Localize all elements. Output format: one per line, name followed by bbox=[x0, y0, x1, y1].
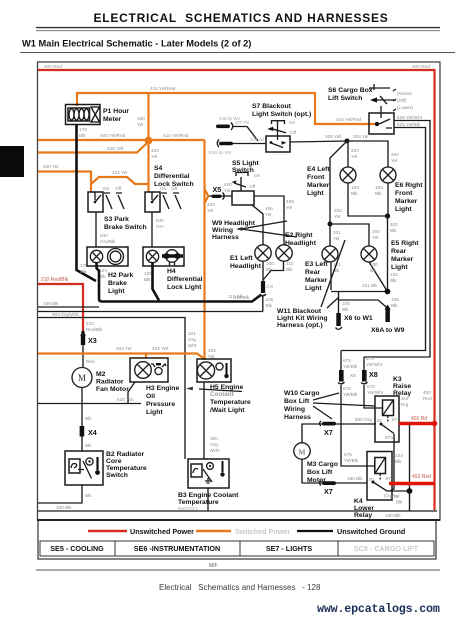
svg-text:X7: X7 bbox=[324, 487, 333, 496]
svg-text:110 Blk: 110 Blk bbox=[234, 295, 250, 300]
wire 102 Blk bbox=[388, 216, 399, 290]
ground bus H2/H4/E1 thick bbox=[97, 263, 262, 302]
footer rules bbox=[36, 563, 440, 570]
right front marker light E6 bbox=[380, 167, 423, 213]
svg-text:W9 Headlight: W9 Headlight bbox=[212, 220, 256, 227]
svg-text:800 Org: 800 Org bbox=[355, 417, 372, 422]
svg-text:Light: Light bbox=[391, 264, 408, 271]
svg-text:E2 Right: E2 Right bbox=[285, 232, 313, 239]
svg-text:Yel/Blk: Yel/Blk bbox=[344, 458, 359, 463]
svg-text:675: 675 bbox=[343, 386, 351, 391]
svg-text:Brake Switch: Brake Switch bbox=[104, 224, 147, 231]
svg-text:206 Yel: 206 Yel bbox=[250, 137, 264, 142]
svg-text:Yel/Wht: Yel/Wht bbox=[366, 362, 383, 367]
left rear marker light E3 bbox=[305, 246, 338, 292]
wire 401 Red thick bbox=[399, 416, 437, 426]
svg-text:Lock Switch: Lock Switch bbox=[154, 181, 194, 188]
svg-text:Rear: Rear bbox=[391, 248, 406, 255]
svg-text:Wht: Wht bbox=[188, 343, 197, 348]
schematic frame bbox=[38, 62, 441, 520]
svg-text:SE5 - COOLING: SE5 - COOLING bbox=[50, 544, 104, 553]
wire 420 Yel S4 riser bbox=[149, 140, 160, 192]
H3 ground wire 620 Tan bbox=[38, 382, 141, 404]
svg-text:480: 480 bbox=[137, 116, 145, 121]
lower relay K4 bbox=[354, 452, 403, 520]
svg-text:E5 Right: E5 Right bbox=[391, 240, 419, 247]
svg-text:Yol: Yol bbox=[224, 188, 230, 193]
svg-text:Harness: Harness bbox=[284, 414, 311, 421]
wire 203 Yel to E4 bbox=[348, 141, 359, 167]
svg-text:402: 402 bbox=[208, 348, 216, 353]
differential lock switch S4 bbox=[145, 165, 194, 212]
svg-text:87: 87 bbox=[392, 417, 398, 422]
svg-text:5W6700.0: 5W6700.0 bbox=[178, 506, 198, 511]
svg-text:www.epcatalogs.com: www.epcatalogs.com bbox=[317, 602, 440, 616]
svg-text:675: 675 bbox=[343, 358, 351, 363]
svg-text:151 Blk: 151 Blk bbox=[362, 283, 378, 288]
svg-text:452 Red: 452 Red bbox=[412, 474, 431, 480]
svg-text:E6 Right: E6 Right bbox=[395, 182, 423, 189]
svg-text:400: 400 bbox=[224, 182, 232, 187]
wire 670 Yel/Wht to K3 coil bbox=[364, 385, 383, 408]
wire 425 Yel bus bbox=[38, 142, 149, 153]
svg-text:105: 105 bbox=[391, 297, 399, 302]
wire 640 Grn bbox=[152, 212, 164, 247]
cargo box lift motor M3 bbox=[294, 443, 338, 484]
radiator core temperature switch B2 bbox=[65, 451, 147, 485]
marker ground rail bbox=[331, 291, 388, 293]
svg-text:Temperature: Temperature bbox=[210, 399, 251, 406]
svg-text:670: 670 bbox=[366, 356, 374, 361]
svg-text:Blk: Blk bbox=[396, 500, 403, 505]
svg-text:674 Yel: 674 Yel bbox=[384, 494, 399, 499]
svg-text:K4: K4 bbox=[354, 498, 363, 505]
differential lock light H4 bbox=[143, 247, 203, 291]
svg-text:X4: X4 bbox=[88, 428, 97, 437]
svg-text:904 Org/Wht: 904 Org/Wht bbox=[52, 312, 79, 317]
svg-text:Blk: Blk bbox=[390, 278, 397, 283]
svg-text:S4: S4 bbox=[154, 165, 163, 172]
svg-text:Temperature: Temperature bbox=[178, 499, 219, 506]
svg-text:Blk: Blk bbox=[391, 303, 398, 308]
B2 ground wire bbox=[38, 485, 92, 503]
page title bbox=[36, 11, 440, 31]
svg-text:221: 221 bbox=[188, 331, 196, 336]
svg-text:425 Yell: 425 Yell bbox=[107, 146, 123, 151]
svg-text:400 Red: 400 Red bbox=[44, 64, 62, 69]
svg-text:Blk: Blk bbox=[80, 269, 87, 274]
svg-text:Rear: Rear bbox=[305, 269, 320, 276]
wire 103 Blk E4 ground bbox=[348, 183, 385, 216]
legend box bbox=[38, 520, 436, 559]
connector X3 bbox=[80, 331, 97, 367]
headlight E2 bbox=[276, 232, 317, 261]
svg-text:Blk: Blk bbox=[85, 416, 92, 421]
svg-text:87: 87 bbox=[386, 476, 392, 481]
svg-text:M2: M2 bbox=[96, 371, 106, 378]
svg-text:E4 Left: E4 Left bbox=[307, 166, 330, 173]
E2 ground diagonal bbox=[234, 261, 294, 300]
svg-text:Fan Motor: Fan Motor bbox=[96, 386, 129, 393]
svg-text:On: On bbox=[289, 120, 296, 125]
svg-text:415 Yel/Red: 415 Yel/Red bbox=[150, 86, 176, 91]
svg-text:Coolant: Coolant bbox=[210, 391, 235, 398]
svg-text:204 Yel: 204 Yel bbox=[353, 134, 368, 139]
W9 stub connector 207 Yel bbox=[216, 116, 258, 141]
svg-text:640: 640 bbox=[156, 218, 164, 223]
svg-text:On: On bbox=[103, 186, 110, 191]
wire 101 Blk E3 ground bbox=[331, 262, 341, 290]
svg-text:Differential: Differential bbox=[154, 173, 190, 180]
svg-text:Yel: Yel bbox=[137, 122, 143, 127]
svg-text:420: 420 bbox=[151, 148, 159, 153]
wire 410 Yel/Red with junction node bbox=[145, 93, 205, 144]
svg-text:Yel: Yel bbox=[207, 208, 213, 213]
svg-text:100: 100 bbox=[266, 261, 274, 266]
svg-text:103: 103 bbox=[351, 185, 359, 190]
svg-text:210: 210 bbox=[86, 321, 94, 326]
wire 480 Blk with connector X7 bbox=[302, 459, 367, 496]
connector X8 pair bbox=[338, 351, 384, 398]
svg-text:P1 Hour: P1 Hour bbox=[103, 108, 129, 115]
svg-text:620 Tan: 620 Tan bbox=[117, 397, 134, 402]
svg-text:Temperature: Temperature bbox=[106, 465, 147, 472]
wire 800 Org with connector X7 bbox=[302, 417, 376, 443]
svg-text:170: 170 bbox=[79, 127, 87, 132]
svg-text:Off: Off bbox=[115, 186, 122, 191]
wire 201 Yel to E3 bbox=[330, 224, 341, 246]
svg-text:Headlight: Headlight bbox=[285, 240, 317, 247]
wire 150 Blk E5 ground bbox=[369, 262, 387, 290]
connector X6A to W9 bbox=[371, 297, 405, 334]
wire 100 Blk bus bbox=[38, 505, 437, 518]
svg-text:Off: Off bbox=[290, 130, 297, 135]
svg-text:403 Yell: 403 Yell bbox=[152, 346, 168, 351]
wire 455 Yel to E2 bbox=[254, 196, 294, 245]
svg-text:400: 400 bbox=[423, 390, 431, 395]
wire 404 Yel bbox=[38, 346, 205, 359]
svg-text:Yel: Yel bbox=[265, 212, 271, 217]
wire 400 Yel/Red bus bbox=[38, 133, 149, 140]
svg-text:Radiator: Radiator bbox=[96, 379, 124, 386]
svg-text:430 Yel: 430 Yel bbox=[43, 164, 58, 169]
cargo box lift switch S6 bbox=[328, 84, 413, 134]
svg-text:(Lower): (Lower) bbox=[397, 105, 413, 110]
svg-text:(Off): (Off) bbox=[397, 98, 407, 103]
svg-text:Gry/Blk: Gry/Blk bbox=[100, 239, 116, 244]
svg-text:203: 203 bbox=[351, 148, 359, 153]
svg-text:Off: Off bbox=[249, 184, 256, 189]
svg-text:Unswitched Power: Unswitched Power bbox=[130, 527, 194, 536]
svg-text:Marker: Marker bbox=[391, 256, 414, 263]
svg-text:X3: X3 bbox=[88, 336, 97, 345]
section table bbox=[40, 541, 434, 556]
svg-text:X5: X5 bbox=[213, 185, 222, 194]
svg-text:Blk: Blk bbox=[79, 133, 86, 138]
svg-text:K3: K3 bbox=[393, 376, 402, 383]
svg-text:Light: Light bbox=[307, 190, 324, 197]
wire 415 Yel/Red bbox=[77, 86, 375, 127]
svg-text:404 Yel: 404 Yel bbox=[116, 346, 131, 351]
svg-text:Relay: Relay bbox=[354, 512, 372, 519]
svg-text:400 Red: 400 Red bbox=[412, 64, 430, 69]
svg-text:Red: Red bbox=[86, 359, 95, 364]
svg-text:X6 to W1: X6 to W1 bbox=[344, 315, 373, 322]
headlight E1 bbox=[230, 245, 271, 270]
svg-text:Yel: Yel bbox=[372, 235, 378, 240]
svg-text:Light: Light bbox=[146, 409, 163, 416]
svg-text:Yel: Yel bbox=[151, 154, 157, 159]
svg-text:Harness: Harness bbox=[212, 234, 239, 241]
svg-text:Blk: Blk bbox=[85, 443, 92, 448]
svg-text:2065 bp W9: 2065 bp W9 bbox=[208, 150, 232, 155]
wire 452 Red thick bbox=[389, 474, 435, 484]
svg-text:X7: X7 bbox=[324, 428, 333, 437]
W9 stub connector 206 Yel bbox=[208, 137, 266, 155]
svg-text:On: On bbox=[254, 173, 261, 178]
wire 108 Blk bus bbox=[38, 301, 263, 312]
svg-text:Wiring: Wiring bbox=[212, 227, 233, 234]
svg-text:Marker: Marker bbox=[395, 198, 418, 205]
svg-text:410 Yel/Red: 410 Yel/Red bbox=[163, 133, 189, 138]
svg-text:205 bp W9: 205 bp W9 bbox=[219, 116, 240, 121]
svg-text:Yel: Yel bbox=[391, 158, 397, 163]
svg-text:Oil: Oil bbox=[146, 393, 155, 400]
svg-text:E1 Left: E1 Left bbox=[230, 255, 253, 262]
svg-text:Blk: Blk bbox=[266, 303, 273, 308]
svg-text:Light: Light bbox=[395, 206, 412, 213]
svg-text:S6 Cargo Box: S6 Cargo Box bbox=[328, 87, 373, 94]
svg-text:H2 Park: H2 Park bbox=[108, 272, 134, 279]
svg-text:Blk: Blk bbox=[351, 191, 358, 196]
svg-text:SE6 -INSTRUMENTATION: SE6 -INSTRUMENTATION bbox=[134, 544, 220, 553]
svg-text:205 Yell: 205 Yell bbox=[325, 134, 341, 139]
page edge tab bbox=[0, 146, 24, 177]
svg-text:M: M bbox=[299, 448, 306, 457]
svg-text:480 Blk: 480 Blk bbox=[347, 476, 363, 481]
legend unswitched power bbox=[88, 527, 194, 536]
left front marker light E4 bbox=[307, 166, 356, 197]
wire 675 Yel/Blk to K4 coil bbox=[341, 385, 375, 466]
svg-text:110: 110 bbox=[286, 261, 294, 266]
wire 210 Red/Blk bbox=[38, 277, 103, 333]
svg-text:Raise: Raise bbox=[393, 383, 411, 390]
svg-text:Light: Light bbox=[305, 285, 322, 292]
legend unswitched ground bbox=[297, 527, 405, 536]
svg-text:102: 102 bbox=[390, 222, 398, 227]
svg-text:Blk: Blk bbox=[390, 228, 397, 233]
svg-text:Meter: Meter bbox=[103, 116, 121, 123]
svg-text:Lock Light: Lock Light bbox=[167, 284, 202, 291]
svg-text:M: M bbox=[78, 373, 86, 383]
svg-text:H3 Engine: H3 Engine bbox=[146, 385, 179, 392]
svg-text:Pressure: Pressure bbox=[146, 401, 175, 408]
svg-text:W11 Blackout: W11 Blackout bbox=[277, 308, 322, 315]
connector X5 bbox=[205, 182, 233, 213]
svg-text:300: 300 bbox=[210, 436, 218, 441]
wire 205/204 Yel to marker node bbox=[290, 134, 368, 144]
svg-text:H4: H4 bbox=[167, 268, 176, 275]
connector X6 to W1 bbox=[336, 292, 389, 329]
svg-text:Brake: Brake bbox=[108, 280, 127, 287]
svg-text:ELECTRICAL SCHEMATICS AND HAR: ELECTRICAL SCHEMATICS AND HARNESSES bbox=[93, 11, 388, 25]
svg-text:Lower: Lower bbox=[354, 505, 374, 512]
svg-text:Light Kit Wiring: Light Kit Wiring bbox=[277, 315, 328, 322]
wire 170 Blk thick bbox=[77, 124, 97, 281]
svg-text:X8: X8 bbox=[369, 370, 378, 379]
svg-text:87a: 87a bbox=[385, 435, 393, 440]
wire 430 Yel bbox=[38, 164, 91, 192]
svg-text:Headlight: Headlight bbox=[230, 263, 262, 270]
svg-text:Unswitched Ground: Unswitched Ground bbox=[337, 527, 405, 536]
svg-text:B2 Radiator: B2 Radiator bbox=[106, 451, 145, 458]
temperature wait light H5 bbox=[197, 359, 251, 414]
svg-text:620 Yel/Wht: 620 Yel/Wht bbox=[397, 115, 423, 120]
svg-text:Yel: Yel bbox=[333, 236, 339, 241]
svg-text:M3 Cargo: M3 Cargo bbox=[307, 461, 338, 468]
svg-text:675: 675 bbox=[344, 452, 352, 457]
wire 630 Gry/Blk bbox=[96, 212, 116, 247]
svg-text:Org: Org bbox=[401, 402, 409, 407]
svg-text:/Wht: /Wht bbox=[210, 448, 220, 453]
svg-text:100: 100 bbox=[370, 262, 378, 267]
svg-text:455: 455 bbox=[286, 199, 294, 204]
svg-text:S7 Blackout: S7 Blackout bbox=[252, 103, 292, 110]
svg-text:402: 402 bbox=[207, 202, 215, 207]
E1 ground with connector bar bbox=[260, 261, 275, 312]
svg-text:12V: 12V bbox=[99, 268, 108, 273]
svg-text:422 Yel: 422 Yel bbox=[112, 170, 127, 175]
svg-text:Front: Front bbox=[395, 190, 413, 197]
connector X4 bbox=[80, 388, 97, 452]
svg-text:Org: Org bbox=[210, 442, 218, 447]
svg-text:401 Rd: 401 Rd bbox=[411, 416, 427, 422]
svg-text:400 Yel/Red: 400 Yel/Red bbox=[100, 133, 126, 138]
wire 625 Yel/Blk bbox=[341, 122, 426, 351]
svg-text:Marker: Marker bbox=[307, 182, 330, 189]
svg-text:100 Blk: 100 Blk bbox=[56, 505, 72, 510]
schematic subtitle bbox=[20, 39, 455, 53]
radiator fan motor M2 bbox=[72, 368, 129, 394]
svg-text:106: 106 bbox=[342, 301, 350, 306]
svg-text:SE7 - LIGHTS: SE7 - LIGHTS bbox=[266, 544, 313, 553]
svg-text:Yel/Blk: Yel/Blk bbox=[343, 364, 358, 369]
blackout harness W11 callout bbox=[277, 240, 345, 329]
B3 ground wire bbox=[207, 488, 209, 511]
blackout light switch S7 bbox=[252, 103, 311, 152]
wire 202 Yel bbox=[328, 141, 348, 227]
svg-text:Differential: Differential bbox=[167, 276, 203, 283]
svg-text:SC8 - CARGO LIFT: SC8 - CARGO LIFT bbox=[354, 544, 419, 553]
wire 104 Blk E6 ground bbox=[375, 183, 390, 219]
right rear marker light E5 bbox=[361, 240, 419, 271]
park brake switch S3 bbox=[88, 186, 147, 231]
svg-text:Yel/Blk: Yel/Blk bbox=[343, 392, 358, 397]
svg-text:Electrical Schematics and Ha: Electrical Schematics and Harnesses - 12… bbox=[159, 583, 321, 592]
svg-text:453: 453 bbox=[401, 396, 409, 401]
svg-text:X6A to W9: X6A to W9 bbox=[371, 327, 405, 334]
svg-text:Yel: Yel bbox=[286, 205, 292, 210]
svg-text:Switch: Switch bbox=[106, 472, 128, 479]
svg-text:Light Switch (opt.): Light Switch (opt.) bbox=[252, 111, 311, 118]
svg-text:208: 208 bbox=[266, 284, 274, 289]
svg-text:105: 105 bbox=[266, 297, 274, 302]
svg-text:102: 102 bbox=[390, 272, 398, 277]
svg-text:201: 201 bbox=[333, 230, 341, 235]
svg-text:200: 200 bbox=[372, 229, 380, 234]
svg-text:Blk: Blk bbox=[342, 307, 349, 312]
wire 904 Org/Wht bbox=[38, 312, 197, 459]
svg-text:Yel/Wht: Yel/Wht bbox=[367, 390, 384, 395]
svg-text:Switched Power: Switched Power bbox=[235, 527, 290, 536]
hour meter P1 bbox=[66, 105, 130, 125]
svg-text:S5 Light: S5 Light bbox=[232, 160, 260, 167]
svg-text:Blk: Blk bbox=[144, 277, 151, 282]
svg-text:(Raise): (Raise) bbox=[397, 91, 413, 96]
svg-text:456: 456 bbox=[265, 206, 273, 211]
svg-text:W10 Cargo: W10 Cargo bbox=[284, 390, 320, 397]
svg-text:S3 Park: S3 Park bbox=[104, 216, 129, 223]
svg-text:Lift Switch: Lift Switch bbox=[328, 95, 362, 102]
svg-text:Box Lift: Box Lift bbox=[307, 469, 333, 476]
svg-text:Grn: Grn bbox=[156, 224, 164, 229]
wire 300 Org/Wht bbox=[204, 382, 220, 459]
svg-text:X8: X8 bbox=[350, 373, 356, 378]
svg-text:W1 Main Electrical Schematic -: W1 Main Electrical Schematic - Later Mod… bbox=[22, 39, 251, 49]
svg-text:Front: Front bbox=[307, 174, 325, 181]
svg-text:104: 104 bbox=[375, 185, 383, 190]
engine coolant temperature sensor B3 bbox=[178, 459, 239, 511]
wire 620 Yel/Wht bbox=[364, 115, 430, 357]
svg-text:Blk: Blk bbox=[395, 459, 402, 464]
svg-text:670: 670 bbox=[367, 384, 375, 389]
svg-text:Blk: Blk bbox=[370, 268, 377, 273]
K4 ground wire 674 bbox=[384, 488, 412, 504]
svg-text:Red: Red bbox=[423, 396, 432, 401]
svg-text:Marker: Marker bbox=[305, 277, 328, 284]
K3 87a drop wire bbox=[390, 434, 394, 491]
svg-text:Yel: Yel bbox=[334, 214, 340, 219]
svg-text:Org: Org bbox=[188, 337, 196, 342]
svg-text:120: 120 bbox=[144, 271, 152, 276]
svg-text:Red/Blk: Red/Blk bbox=[86, 327, 103, 332]
svg-text:Core: Core bbox=[106, 458, 122, 465]
svg-text:Harness (opt.): Harness (opt.) bbox=[277, 322, 323, 329]
svg-text:108 Blk: 108 Blk bbox=[43, 301, 59, 306]
wire 456 Yel to E1 bbox=[252, 205, 273, 245]
raise relay K3 bbox=[375, 376, 411, 442]
svg-text:Light: Light bbox=[108, 288, 125, 295]
wire 400 Red top/right bus bbox=[38, 64, 435, 510]
svg-text:Blk: Blk bbox=[85, 493, 92, 498]
svg-text:Switch: Switch bbox=[232, 167, 254, 174]
svg-text:210 Red/Blk: 210 Red/Blk bbox=[41, 277, 69, 283]
svg-text:100 Blk: 100 Blk bbox=[385, 513, 401, 518]
headlight wiring harness W9 callout bbox=[212, 220, 297, 241]
light switch S5 bbox=[232, 160, 261, 205]
wire 204 Yel to E6 bbox=[347, 141, 399, 167]
wire 221 Org/Wht vertical bbox=[205, 140, 217, 360]
svg-text:630: 630 bbox=[100, 233, 108, 238]
svg-text:Blk: Blk bbox=[375, 191, 382, 196]
svg-text:Wiring: Wiring bbox=[284, 406, 305, 413]
wire 422 Yel bridge S3 to S4 bbox=[91, 170, 149, 184]
svg-text:Yel: Yel bbox=[351, 154, 357, 159]
svg-text:30: 30 bbox=[377, 418, 383, 423]
svg-text:Box Lift: Box Lift bbox=[284, 398, 310, 405]
cargo lift harness W10 callout bbox=[186, 387, 375, 421]
svg-text:/Wait Light: /Wait Light bbox=[210, 407, 245, 414]
